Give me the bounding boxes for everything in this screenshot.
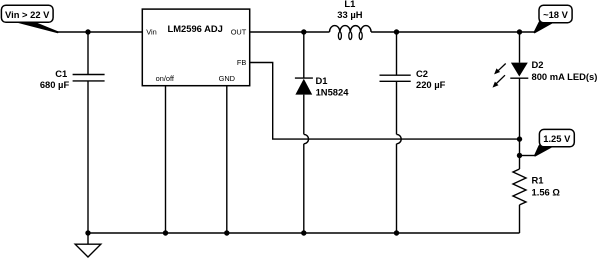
svg-text:Vin: Vin: [146, 27, 157, 36]
svg-text:680 µF: 680 µF: [40, 79, 70, 90]
svg-text:33 µH: 33 µH: [337, 9, 362, 20]
svg-text:C1: C1: [55, 68, 67, 79]
svg-text:1.56 Ω: 1.56 Ω: [532, 187, 561, 198]
svg-text:FB: FB: [237, 58, 247, 67]
svg-text:1N5824: 1N5824: [316, 87, 350, 98]
svg-text:800 mA LED(s): 800 mA LED(s): [532, 71, 598, 82]
svg-text:on/off: on/off: [156, 74, 175, 83]
svg-text:1.25 V: 1.25 V: [543, 133, 571, 144]
svg-text:~18 V: ~18 V: [543, 9, 569, 20]
svg-text:GND: GND: [219, 74, 235, 83]
svg-text:D2: D2: [532, 59, 544, 70]
svg-text:L1: L1: [344, 0, 355, 9]
svg-text:OUT: OUT: [231, 27, 247, 36]
svg-text:LM2596 ADJ: LM2596 ADJ: [167, 23, 222, 34]
svg-text:D1: D1: [316, 75, 328, 86]
svg-text:C2: C2: [416, 68, 428, 79]
svg-text:R1: R1: [532, 175, 544, 186]
svg-text:Vin > 22 V: Vin > 22 V: [5, 9, 50, 20]
svg-text:220 µF: 220 µF: [416, 79, 446, 90]
